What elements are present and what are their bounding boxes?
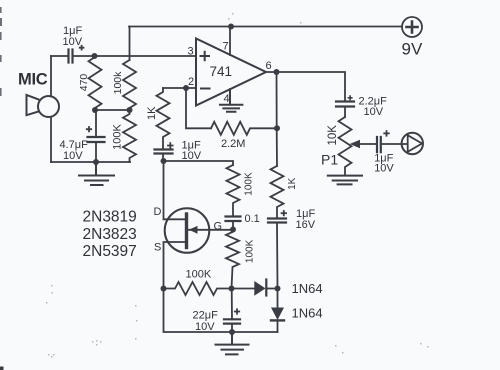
node gate junction [230,227,236,233]
node D junction [161,158,167,164]
node supply junction at pin7 wire [228,24,234,30]
capacitor C1 1uF coupling plates [69,50,73,63]
wire output to volume [266,72,345,102]
svg-text:S: S [154,241,161,253]
polarity plus C6 [281,210,287,216]
wire pin2 input [163,87,196,89]
node A input cap junction [92,53,98,59]
polarity plus C3 [167,142,173,148]
svg-text:100K: 100K [243,172,254,196]
node ground junction bottom-left [93,159,99,165]
svg-text:10V: 10V [63,150,83,162]
capacitor C3 1uF 10V [155,150,173,154]
svg-text:22μF: 22μF [193,310,219,322]
op-amp U1 741 triangle [196,39,266,106]
connector J1 output jack [402,133,423,154]
svg-text:100K: 100K [111,123,123,149]
wire source lead [164,242,186,289]
wire bottom left ground run [51,161,130,163]
capacitor C2 4.7uF [95,110,97,137]
wire drain lead [164,161,186,219]
svg-text:100K: 100K [186,269,212,281]
polarity plus C7 [348,95,353,100]
node B divider junction [92,107,98,113]
polarity plus C1 [79,45,85,51]
svg-text:10V: 10V [374,162,394,174]
resistor R9 1K right [271,166,284,219]
ground GND4 [216,332,249,354]
resistor R3 100K lower [123,110,136,162]
svg-text:16V: 16V [296,219,316,231]
potentiometer wiper arrow [358,143,377,145]
wire gate lead [189,229,233,231]
svg-text:MIC: MIC [18,71,48,89]
svg-text:741: 741 [210,64,233,79]
svg-text:2N5397: 2N5397 [83,243,137,260]
svg-text:10V: 10V [195,321,215,333]
wire mic input line to pin3 [51,55,196,57]
wire left rail drop to 100k [129,27,131,61]
svg-text:P1: P1 [321,152,338,168]
capacitor C8 1uF output [377,137,381,152]
svg-text:10K: 10K [327,125,339,146]
ground GND1 [79,162,114,185]
svg-text:4: 4 [224,93,230,105]
resistor R2 100k upper [123,60,136,110]
node source bottom junction [161,286,167,292]
resistor R8 100K bottom [164,282,232,295]
svg-text:1K: 1K [146,106,158,120]
svg-text:2N3823: 2N3823 [83,226,137,243]
svg-text:9V: 9V [402,40,423,59]
capacitor C5 22uF [231,289,233,320]
wire bottom return [164,289,278,333]
resistor R5 1K left [157,88,170,149]
svg-text:0.1: 0.1 [245,213,260,225]
node feedback right junction [274,125,280,131]
wire node D to 100K chain [164,161,234,165]
resistor R4 2.2M feedback [211,122,277,135]
svg-text:1K: 1K [287,177,298,190]
svg-text:2.2M: 2.2M [221,138,245,150]
op-amp minus input mark [201,88,210,90]
node pin6 output junction [274,69,280,75]
polarity plus C5 [234,308,240,314]
wire pin2 down to feedback [186,88,211,128]
polarity plus C2 [86,126,92,132]
capacitor C4 0.1 [226,217,241,222]
transistor Q1 JFET circle [165,208,210,253]
svg-text:470: 470 [78,74,90,92]
node bottom ground junction [229,329,235,335]
svg-text:2: 2 [188,76,194,88]
resistor R6 100K gate top [227,165,240,217]
capacitor C7 2.2uF [336,102,354,107]
diode D1 1N64 horizontal [232,288,255,290]
svg-text:100k: 100k [112,71,124,95]
svg-text:D: D [154,206,162,218]
svg-text:G: G [214,220,223,232]
battery B1 9V terminal [402,17,422,37]
wire output column down [276,72,279,166]
node detector junction [229,286,235,292]
svg-text:10V: 10V [364,106,384,118]
wire mic vertical [50,56,52,162]
svg-text:6: 6 [266,60,272,72]
microphone MIC symbol [27,95,60,117]
svg-text:2N3819: 2N3819 [83,209,137,226]
svg-text:10V: 10V [182,150,202,162]
svg-text:10V: 10V [63,36,83,48]
potentiometer P1 10K [339,117,352,176]
svg-text:1N64: 1N64 [292,281,323,296]
wire top supply rail [129,26,402,28]
resistor R1 470 [89,57,102,110]
svg-text:100K: 100K [245,239,256,263]
scan artifacts left edge [46,13,429,358]
node pin2 junction [183,85,189,91]
resistor R7 100K gate bottom [226,230,239,289]
node diode junction [275,286,281,292]
transistor Q1 channel bar [185,214,188,248]
capacitor C6 1uF 16V [268,219,286,223]
wire node B link [95,109,130,111]
ground GND3 pot [328,176,362,185]
diode D2 1N64 vertical [277,289,279,308]
ground GND2 opamp pin4 [220,89,242,112]
wire pin7 to rail [229,27,231,56]
svg-text:3: 3 [188,46,194,58]
svg-text:7: 7 [223,41,229,53]
svg-text:1N64: 1N64 [292,305,323,320]
op-amp plus input mark [201,52,210,60]
gate arrowhead [189,226,198,234]
polarity plus C8 [383,130,389,136]
